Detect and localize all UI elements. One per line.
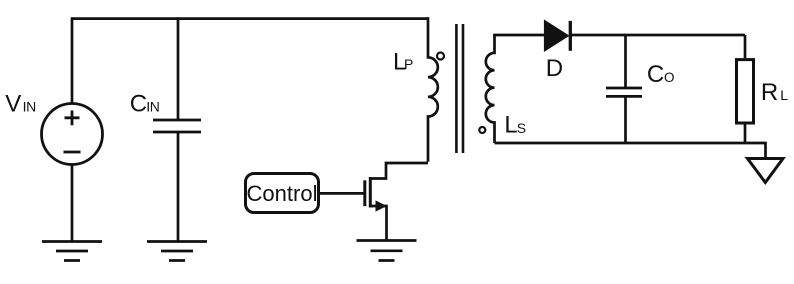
diode D (545, 21, 568, 50)
label Lp (393, 48, 413, 75)
dot secondary polarity (479, 127, 485, 133)
dot primary polarity (437, 53, 444, 60)
wire diode to output (570, 34, 745, 37)
wire gate (320, 192, 364, 195)
svg-text:L: L (780, 87, 788, 103)
transistor Q1 channel bar (369, 177, 372, 208)
ground (Cin) (147, 242, 207, 261)
transistor Q1 gate bar (363, 180, 366, 206)
svg-text:S: S (517, 120, 526, 136)
wire drain (370, 163, 428, 179)
capacitor Cin (153, 120, 201, 132)
label D (546, 55, 563, 82)
wire Vin bottom (71, 165, 74, 242)
label Cin (130, 91, 160, 118)
svg-text:P: P (404, 56, 413, 72)
ground (Q1) (357, 241, 417, 261)
control block (246, 174, 319, 213)
capacitor Co (606, 88, 642, 96)
source V1 Vin circle (42, 104, 103, 165)
wire RL top (744, 35, 747, 58)
transformer core (456, 24, 463, 153)
svg-text:O: O (664, 70, 675, 85)
wire secondary top (495, 35, 546, 36)
wire Vin top (71, 17, 74, 104)
ground triangle (output) (748, 159, 784, 183)
svg-text:L: L (504, 112, 517, 139)
Vin minus sign (64, 151, 81, 154)
label RL (761, 79, 788, 106)
wire source (370, 206, 386, 241)
svg-text:C: C (647, 61, 664, 88)
diode D cathode bar (569, 21, 572, 51)
svg-text:C: C (130, 91, 147, 118)
wire RL bottom (744, 125, 747, 144)
svg-text:IN: IN (23, 99, 36, 115)
svg-text:Control: Control (247, 181, 318, 206)
label Control (247, 181, 318, 206)
wire Cin top (177, 17, 180, 120)
wire Co bottom (624, 96, 627, 143)
Vin plus sign (65, 111, 80, 126)
ground (Vin) (42, 242, 102, 261)
wire Cin bottom (177, 132, 180, 242)
label Ls (504, 112, 526, 139)
svg-text:D: D (546, 55, 563, 82)
svg-text:IN: IN (146, 99, 159, 115)
label Vin (5, 91, 36, 118)
svg-text:V: V (5, 91, 21, 118)
wire Co top (624, 35, 627, 88)
inductor Ls (486, 35, 495, 143)
inductor Lp (428, 17, 438, 161)
resistor RL (737, 60, 754, 123)
wire top rail (72, 17, 428, 20)
wire bottom rail (495, 143, 766, 158)
transistor Q1 source arrow (376, 200, 388, 211)
label Co (647, 61, 675, 88)
svg-text:R: R (761, 79, 778, 106)
